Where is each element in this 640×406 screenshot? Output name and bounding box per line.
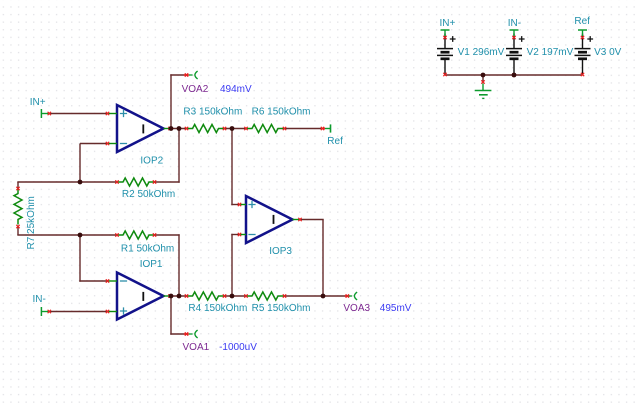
wire R5 to VOA3 node <box>285 295 323 297</box>
junction IOP1 output A <box>168 294 171 297</box>
svg-text:494mV: 494mV <box>220 84 252 95</box>
wire vertical IOP2 minus to R2 node <box>79 144 81 183</box>
wire IOP2 output to R3 <box>169 128 187 130</box>
wire R4 to R5 <box>225 295 247 297</box>
resistor R2 <box>115 178 156 186</box>
junction ground node <box>481 73 486 78</box>
wire VOA1 vertical tap <box>170 296 172 335</box>
op-amp IOP3 <box>238 196 302 243</box>
wire vertical R3R6 node down to IOP3 plus <box>231 129 233 206</box>
node IN- tick above V2 <box>510 30 519 36</box>
svg-text:IOP1: IOP1 <box>140 259 163 270</box>
wire ground stub <box>482 75 484 82</box>
svg-text:R2 50kOhm: R2 50kOhm <box>122 189 175 200</box>
ground <box>475 80 492 98</box>
wire VOA2 vertical tap <box>170 74 172 128</box>
resistor R1 <box>115 231 156 239</box>
node Ref tick above V3 <box>578 30 587 36</box>
op-amp IOP1 <box>106 273 171 320</box>
svg-text:Ref: Ref <box>327 136 343 147</box>
svg-text:IN-: IN- <box>33 294 46 305</box>
svg-text:IOP2: IOP2 <box>140 156 163 167</box>
junction V2 bottom node <box>512 73 515 76</box>
wire IOP1 minus input horizontal <box>79 280 108 282</box>
svg-text:V2 197mV: V2 197mV <box>527 47 574 58</box>
voltage source V3 <box>575 34 594 77</box>
svg-text:V3 0V: V3 0V <box>594 47 622 58</box>
svg-text:IN-: IN- <box>508 18 521 29</box>
wire R3 to R6 <box>225 128 247 130</box>
junction IOP2 output A <box>168 127 171 130</box>
voltage source V1 <box>437 34 456 77</box>
wire IOP2 minus input horizontal <box>80 143 108 145</box>
svg-text:R1 50kOhm: R1 50kOhm <box>121 244 174 255</box>
junction R1 left node <box>78 233 83 238</box>
svg-text:Ref: Ref <box>574 16 590 27</box>
svg-text:V1 296mV: V1 296mV <box>458 47 505 58</box>
resistor R4 <box>185 292 226 300</box>
wire vertical R1 node down to IOP1 minus row <box>79 235 81 282</box>
svg-text:IOP3: IOP3 <box>269 246 292 257</box>
wire battery bottom bus <box>445 74 583 76</box>
node IN+ tick above V1 <box>441 30 450 36</box>
svg-text:R3 150kOhm: R3 150kOhm <box>183 107 242 118</box>
node Ref terminal right of R6 <box>321 124 331 132</box>
probe VOA2 <box>184 71 198 79</box>
wire R1 right to feedback corner <box>155 234 180 236</box>
svg-text:R4 150kOhm: R4 150kOhm <box>188 303 247 314</box>
svg-text:IN+: IN+ <box>30 97 46 108</box>
svg-text:R5 150kOhm: R5 150kOhm <box>252 303 311 314</box>
wire into IOP3 plus input <box>231 204 240 206</box>
resistor R5 <box>244 292 286 300</box>
wire R2 right to feedback corner <box>155 181 180 183</box>
svg-text:VOA3: VOA3 <box>343 303 370 314</box>
junction IOP2 output B <box>177 126 182 131</box>
junction R2 left node <box>78 180 83 185</box>
wire R6 to Ref terminal <box>285 128 322 130</box>
junction R4 R5 node <box>230 294 235 299</box>
op-amp IOP2 <box>106 105 171 152</box>
junction R3 R6 node <box>230 126 235 131</box>
junction VOA3 node <box>321 294 326 299</box>
wire R7 top to R2 left <box>17 181 117 183</box>
wire vertical feedback R2 to IOP2 output <box>178 129 180 183</box>
wire IOP3 output horizontal <box>300 219 324 221</box>
wire vertical IOP3 minus down to R4R5 node <box>231 234 233 296</box>
resistor R7 <box>14 182 22 235</box>
wire VOA2 horizontal <box>170 74 186 76</box>
wire vertical feedback R1 to IOP1 output <box>178 234 180 296</box>
svg-text:IN+: IN+ <box>440 18 456 29</box>
wire into IOP3 minus input <box>231 234 240 236</box>
wire R7 bottom to R1 left <box>17 234 116 236</box>
wire IOP1 output to R4 <box>169 295 187 297</box>
probe VOA3 <box>345 292 357 300</box>
wire IN- to IOP1 plus input <box>49 311 109 313</box>
junction IOP1 output B <box>177 294 182 299</box>
probe VOA1 <box>184 330 198 338</box>
svg-text:R6 150kOhm: R6 150kOhm <box>252 107 311 118</box>
svg-text:495mV: 495mV <box>380 303 412 314</box>
wire VOA1 horizontal <box>170 333 186 335</box>
wire VOA3 node to probe <box>323 295 348 297</box>
resistor R3 <box>185 125 226 133</box>
resistor R6 <box>244 125 286 133</box>
wire IN+ to IOP2 plus input <box>49 113 109 115</box>
svg-text:VOA2: VOA2 <box>182 84 209 95</box>
svg-text:-1000uV: -1000uV <box>219 342 257 353</box>
svg-text:VOA1: VOA1 <box>183 342 210 353</box>
node IN+ terminal <box>41 109 51 118</box>
voltage source V2 <box>506 34 525 76</box>
node IN- terminal <box>41 307 51 316</box>
svg-text:R7 25kOhm: R7 25kOhm <box>26 196 37 249</box>
wire vertical IOP3 output down to R5 node <box>322 220 324 297</box>
